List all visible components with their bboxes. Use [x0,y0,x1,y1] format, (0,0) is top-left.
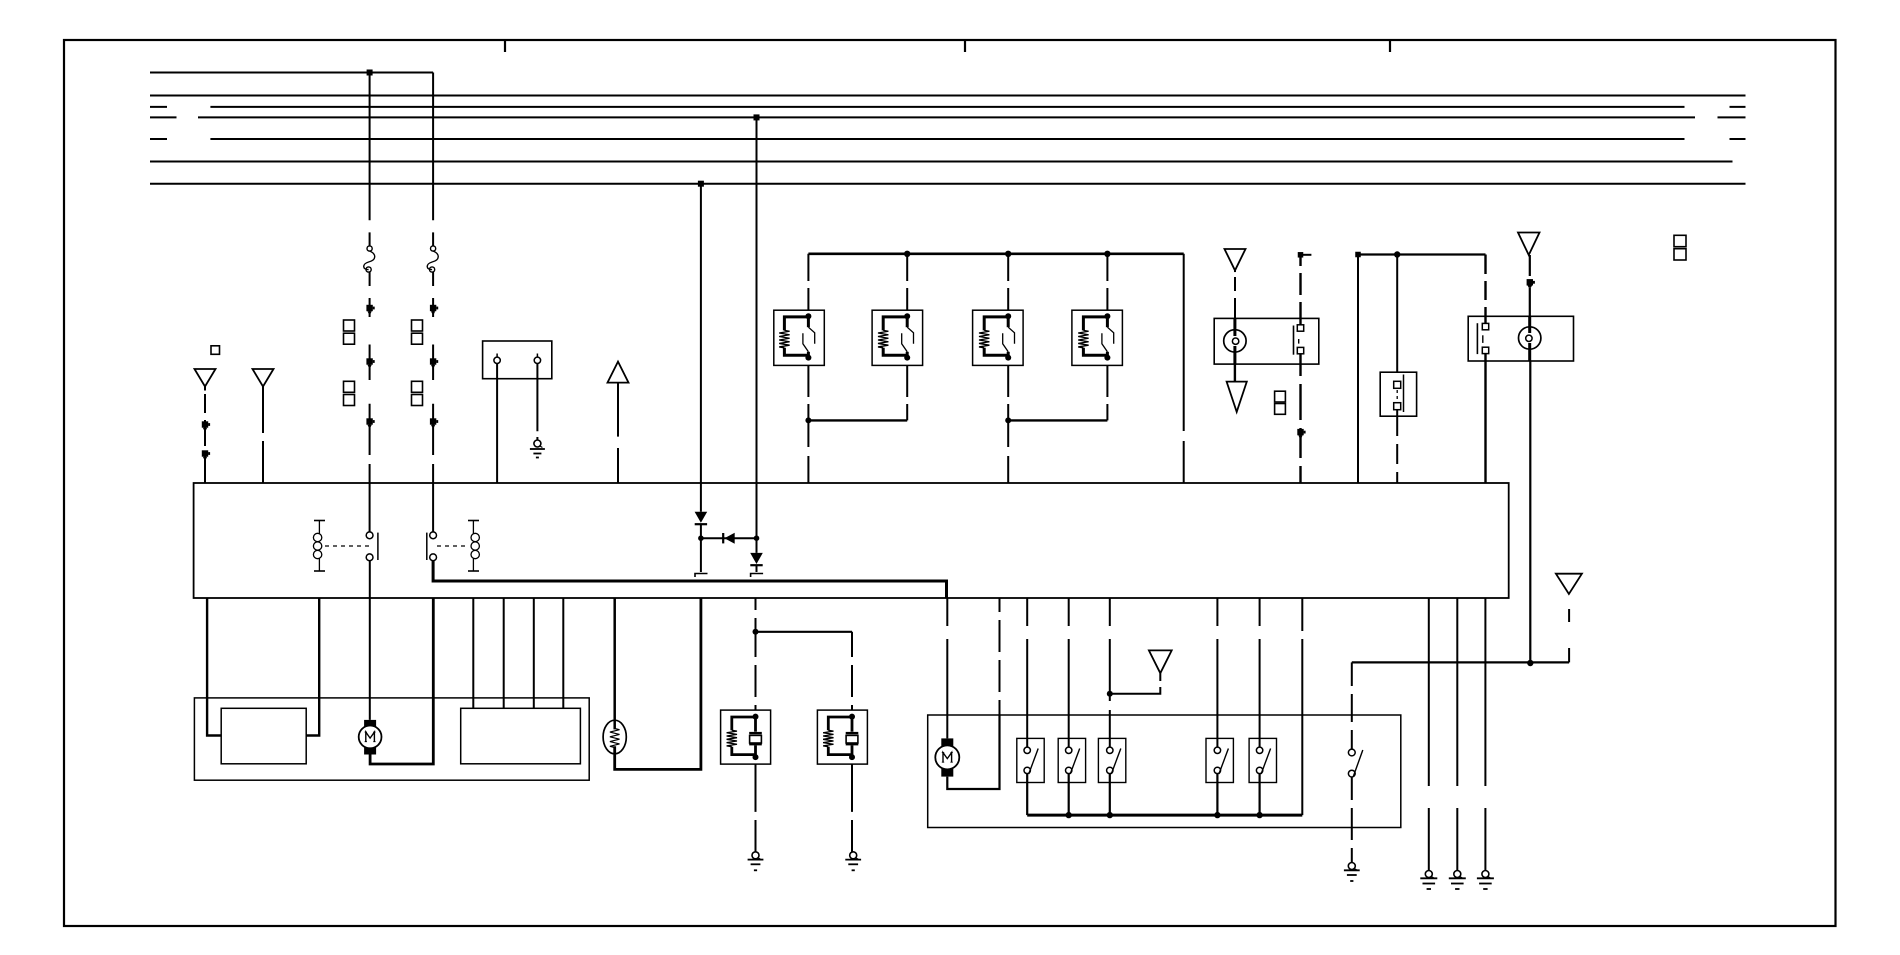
ground symbol T1 [195,369,216,387]
ground G4 [1348,863,1355,870]
relay RL2 actuator [437,545,468,547]
ECU module U1 [194,483,1509,598]
wire SW-E2 up [1484,255,1486,324]
assembly box B1 [194,698,589,780]
wire bus L1 [150,72,433,74]
node relay feed 3 [1005,251,1011,257]
ground G3 [850,852,857,859]
wire relay bus right drop [1183,254,1185,483]
ground symbol T5 tall [1227,382,1247,412]
connector pair B-upper [412,320,423,331]
wire K1 below [807,365,809,420]
wire ECU to G6 [1456,598,1458,871]
fuse F1 [367,246,372,251]
wire drop K1 [807,254,809,310]
switch SW-E2 [1477,323,1488,354]
wire T8 drop [1568,609,1570,662]
wire D2 tail [756,565,758,572]
solenoid K2 [872,310,923,365]
wire RL2 switch top [432,483,434,532]
wire N1 tail [700,538,702,572]
node K1 link [805,417,811,423]
wire drop K3 [1007,254,1009,310]
motor M1 [359,720,382,755]
power symbol T3 up-arrow [608,362,629,383]
wire ECU to SW2 [1068,598,1070,747]
diode D1 [695,512,708,525]
lamp L1 [1224,330,1246,352]
wire INJ1 down [755,764,757,852]
node link 663 [1527,660,1533,666]
wire RL1 switch top [369,483,371,532]
wire SW3-T7 link [1110,687,1161,694]
connector pair A-upper [344,320,355,331]
wire ECU to G7 [1484,598,1486,871]
switch SW2 box [1380,372,1416,416]
wire H1 to SW2 [1396,255,1398,373]
connector pair A-lower [344,381,355,392]
wire INJ link [756,631,853,633]
wire K3 below [1007,365,1009,420]
ground G5 [1425,871,1432,878]
wire SW5 down [1258,774,1260,816]
wire ECU to SW1 [1026,598,1028,747]
wire RL1 switch bottom to motor [369,561,371,720]
solenoid K3 [973,310,1024,365]
wire ECU to SW4 [1216,598,1218,747]
wire bus L3 [150,106,1746,108]
wire bus L7 [150,183,1746,185]
wire T1 to ECU [204,387,206,484]
node SW-E1 stub [1298,252,1304,257]
terminal dot A2 [366,358,372,364]
terminal dot A1 [366,305,372,311]
diode D3 [723,533,735,544]
wire SW2 down [1068,774,1070,816]
relay RL1 actuator [325,545,371,547]
wire K2 below [906,365,908,420]
wire bus L4 [150,116,1746,118]
wire J1-2 to ground [536,364,538,441]
wire ECU to G5 [1428,598,1430,871]
wire SW-E1 to ECU [1299,354,1301,483]
ground symbol T8 [1556,574,1582,594]
lamp unit E2 box [1468,316,1573,361]
wire N1-N2 [701,537,757,539]
ground symbol T2 [253,369,274,387]
wire T3 to ECU [617,383,619,483]
fuse F2 [431,246,436,251]
switch SW3 [1098,738,1125,782]
terminal dot B1 [430,305,436,311]
node H1 tap [1394,251,1400,257]
wire ECU to INJ1 [755,598,757,710]
wire B1b-4 [562,598,564,708]
injector INJ1 [721,710,771,764]
node bus 4 [1256,812,1262,818]
pin J1-1 [494,354,500,364]
wire D1 to node [700,524,702,538]
wire H1-ECU [1357,255,1359,484]
terminal dot B2 [430,358,436,364]
wire K4 below [1106,365,1108,420]
relay RL2 switch [427,532,437,561]
wire bus L6 [150,161,1733,163]
wire T7 stem [1159,673,1161,681]
node H1 left end [1355,252,1361,258]
connector pair R [1674,235,1686,260]
wire D1 feed [700,184,702,512]
wire INJ2 down [851,764,853,852]
terminal tick D2 [751,574,764,578]
assembly box B2 [928,715,1401,828]
node N1 [698,535,704,541]
wire relay feed bus [808,253,1183,256]
terminal dot T6 [1527,279,1533,285]
terminal dot T1b [202,450,208,456]
wire switch bus [1027,814,1302,817]
switch SW2 [1394,375,1404,413]
unit B1a [221,708,306,764]
relay RL1 switch [366,532,378,561]
node L4-D2 junction [754,114,760,120]
wire fuse-A lower [369,272,371,484]
lamp unit E1 box [1214,318,1319,364]
wire RT1 return [615,598,701,769]
wire B1b-3 [533,598,535,708]
wire L2 long down [1529,361,1531,663]
solenoid K1 [774,310,825,365]
switch SW4 [1206,738,1233,782]
connector pair E1 [1275,391,1286,402]
node SW3 tap [1107,691,1113,697]
node L1-A junction [367,70,373,76]
wire fuse-B upper [432,73,434,247]
node relay feed 4 [1104,251,1110,257]
wire ECU to SW5 [1259,598,1261,747]
wire K1 to ECU [807,420,809,483]
ground symbol T6 [1518,233,1540,256]
wire L1 to T5 [1234,364,1236,382]
wire drop K2 [906,254,908,310]
wire drop K4 [1106,254,1108,310]
connector J1 [483,341,552,379]
terminal dot T1a [202,421,208,427]
injector INJ2 [817,710,867,764]
wire T4 to lamp [1234,270,1236,318]
terminal dot B3 [430,418,436,424]
wire K3 to ECU [1007,420,1009,483]
wire fuse-B lower [432,272,434,484]
wire J1-1 to ECU [496,364,498,484]
wire link to INJ2 [851,632,853,710]
relay RL2 coil [468,521,479,572]
ground G7 [1482,871,1489,878]
switch SW-E1 [1294,325,1304,355]
wire RL2 to output [433,561,946,598]
motor M2 [935,738,959,776]
wire M2 return up [999,598,1001,715]
wire B1b-2 [503,598,505,708]
wire bus L2 [150,95,1746,97]
wire ECU to B1 right [306,598,319,736]
node relay feed 2 [904,251,910,257]
wire ECU to SW3 [1109,598,1111,747]
wire K1-K2 link [808,419,907,421]
wire L1 leads [1233,318,1236,364]
node bus 3 [1214,812,1220,818]
wire link line 663 [1352,661,1569,663]
wire SW6 up [1351,662,1353,749]
node INJ feed [753,629,759,635]
wire ECU to RT1 [613,598,616,729]
wire T2 to ECU [262,387,264,484]
node L7-D1 junction [698,181,704,187]
unit B1b [461,708,581,764]
terminal tick D1 [695,574,708,578]
wire SW4 down [1216,774,1218,816]
switch SW1 [1017,738,1044,782]
relay RL1 coil [313,521,325,572]
node N2 [754,535,760,541]
wire SW-E2 to ECU [1484,354,1486,483]
wire ECU to M3 [946,598,948,738]
wire SW3 down [1109,774,1111,816]
wire feed line H1 [1358,253,1486,255]
wire T6 to lamp [1529,255,1531,316]
switch SW6 [1348,749,1362,777]
node bus 2 [1107,812,1113,818]
terminal dot A3 [366,418,372,424]
terminal dot E1 [1297,429,1303,435]
ground G2 [752,852,759,859]
wire SW6 down [1351,777,1353,863]
wire fuse-A upper [369,73,371,247]
wire B1b-1 [472,598,474,708]
wire SW2 to ECU [1396,410,1398,483]
node bus 1 [1066,812,1072,818]
ground G6 [1454,871,1461,878]
wire K3-K4 link [1008,419,1107,421]
connector square S1 [211,346,220,355]
ground symbol T4 [1225,249,1246,270]
wire M2 return [947,715,999,789]
wire bus right up [1301,598,1303,815]
sensor RT1 [603,720,626,754]
wire stub E1 [1301,254,1312,256]
wire bus L5 [150,138,1746,140]
connector pair B-lower [412,381,423,392]
ground G1 [534,440,541,447]
switch SW2 [1058,738,1085,782]
wire D2 feed [756,117,758,553]
wire SW1 down [1026,774,1028,816]
wire SW-E1 up [1299,255,1301,325]
switch SW5 [1249,738,1276,782]
wire ECU to B1 left [207,598,221,736]
lamp L2 [1519,327,1541,349]
node K3 link [1005,417,1011,423]
ground symbol T7 [1149,650,1172,673]
wire M1 return [370,598,433,764]
wire L2 leads [1528,316,1531,361]
pin J1-2 [534,354,540,364]
diode D2 [750,553,763,565]
solenoid K4 [1072,310,1123,365]
